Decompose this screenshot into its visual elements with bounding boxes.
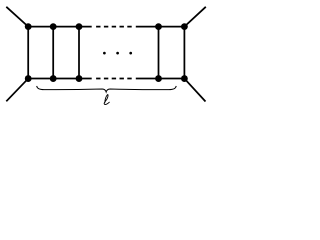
wire bottom row right solid segment <box>136 78 185 80</box>
wire rung 5 vertical <box>183 27 185 79</box>
wire rung 4 vertical <box>158 27 160 79</box>
node v1 top <box>25 23 32 30</box>
wire bottom-right diagonal ray <box>184 79 205 102</box>
node v1 bottom <box>25 75 32 82</box>
wire top row right solid segment <box>136 26 185 28</box>
node v3 top <box>76 23 83 30</box>
label ell <box>104 95 109 105</box>
wire rung 1 vertical <box>27 27 29 79</box>
wire top-right diagonal ray <box>184 7 205 27</box>
node v5 bottom <box>181 75 188 82</box>
wire bottom row dashed segment <box>96 78 132 80</box>
ellipsis dot 1 <box>103 52 106 55</box>
wire top row left solid segment <box>28 26 91 28</box>
node v2 top <box>50 23 57 30</box>
node v3 bottom <box>76 75 83 82</box>
ellipsis dot 3 <box>129 52 132 55</box>
wire rung 3 vertical <box>78 27 80 79</box>
node v4 bottom <box>155 75 162 82</box>
ellipsis dot 2 <box>116 52 119 55</box>
wire top row dashed segment <box>96 26 132 28</box>
node v5 top <box>181 23 188 30</box>
wire bottom-left diagonal ray <box>6 79 28 102</box>
wire rung 2 vertical <box>52 27 54 79</box>
node v4 top <box>155 23 162 30</box>
wire bottom row left solid segment <box>28 78 91 80</box>
brace under bottom row <box>37 86 177 92</box>
wire top-left diagonal ray <box>6 7 28 27</box>
node v2 bottom <box>50 75 57 82</box>
